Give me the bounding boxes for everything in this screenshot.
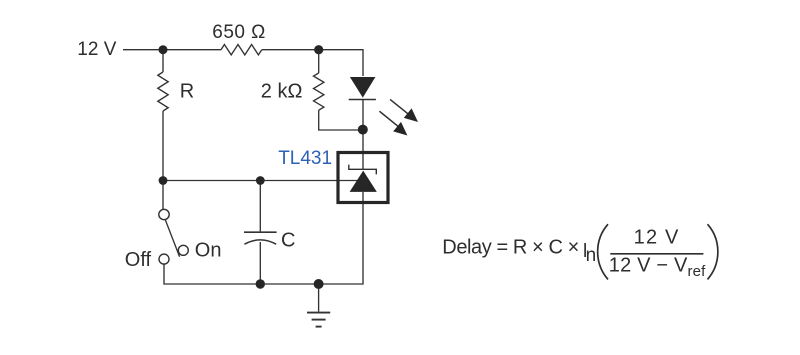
svg-text:Delay = R × C ×: Delay = R × C × xyxy=(442,236,579,258)
svg-text:12 V − Vref: 12 V − Vref xyxy=(609,254,706,280)
svg-text:TL431: TL431 xyxy=(278,148,332,169)
svg-text:On: On xyxy=(195,240,222,262)
svg-text:2 kΩ: 2 kΩ xyxy=(261,80,303,102)
svg-text:Off: Off xyxy=(125,249,152,271)
svg-text:C: C xyxy=(281,229,295,251)
svg-text:12 V: 12 V xyxy=(634,226,679,248)
svg-text:650 Ω: 650 Ω xyxy=(212,22,265,43)
svg-text:12 V: 12 V xyxy=(77,39,116,60)
svg-text:R: R xyxy=(180,81,194,103)
svg-text:n: n xyxy=(586,245,597,266)
